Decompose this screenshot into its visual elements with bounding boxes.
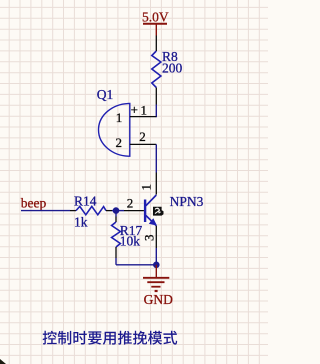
power port 5.0V stem [155,24,157,36]
svg-text:beep: beep [21,196,47,211]
wire junction down to R17 [115,211,117,217]
svg-text:R14: R14 [74,193,97,208]
resistor R17 body [112,222,121,247]
resistor R17 top pin [115,217,117,223]
wire Q1 pin2 to Q2 collector [155,144,157,172]
svg-text:Q1: Q1 [97,87,114,102]
svg-text:1: 1 [141,103,148,118]
svg-text:5.0V: 5.0V [142,9,169,24]
svg-text:NPN3: NPN3 [170,194,204,209]
buzzer Q1 pin 2 line [130,143,157,145]
svg-text:2: 2 [127,196,134,211]
transistor emitter arrow [149,218,157,225]
transistor emitter pin [155,226,157,248]
svg-text:10k: 10k [120,234,141,249]
resistor R17 bottom pin [115,247,117,258]
junction node emitter [153,262,160,269]
transistor collector lead [146,195,157,206]
resistor R14 body [76,206,106,214]
svg-text:2: 2 [116,135,123,150]
svg-text:3: 3 [141,234,156,241]
transistor collector pin [155,173,157,195]
transistor base pin [124,210,144,212]
wire R17 to bottom rail [115,258,117,265]
wire beep to R14 [21,210,70,212]
resistor R8 bottom pin [155,88,157,105]
junction node base [113,207,120,214]
resistor R8 body [152,51,161,88]
wire junction to base pin [116,210,124,212]
wire R14 to junction [112,210,116,212]
wire bottom rail horizontal [116,264,156,266]
transistor base bar [144,200,146,223]
svg-text:1: 1 [116,110,123,125]
resistor R14 left pin [70,210,76,212]
ground stem [155,265,157,278]
svg-text:1: 1 [138,184,153,191]
resistor R14 right pin [106,210,112,212]
buzzer Q1 body [99,104,130,157]
power port 5.0V bar [143,23,167,25]
resistor R8 top pin [155,36,157,52]
transistor emitter lead [146,215,157,225]
svg-text:2: 2 [139,129,146,144]
wire emitter to bottom rail [155,248,157,265]
ground bars [143,278,169,291]
small black icon near transistor [153,207,164,216]
svg-text:GND: GND [144,292,173,307]
annotation text 控制时要用推挽模式 [43,331,178,345]
corner mark bottom-left [0,359,6,364]
svg-text:1k: 1k [74,215,88,230]
wire R8 to Q1 pin1 [155,105,157,118]
svg-text:200: 200 [162,60,183,75]
buzzer Q1 pin 1 line [130,116,157,118]
svg-text:+: + [131,102,138,117]
